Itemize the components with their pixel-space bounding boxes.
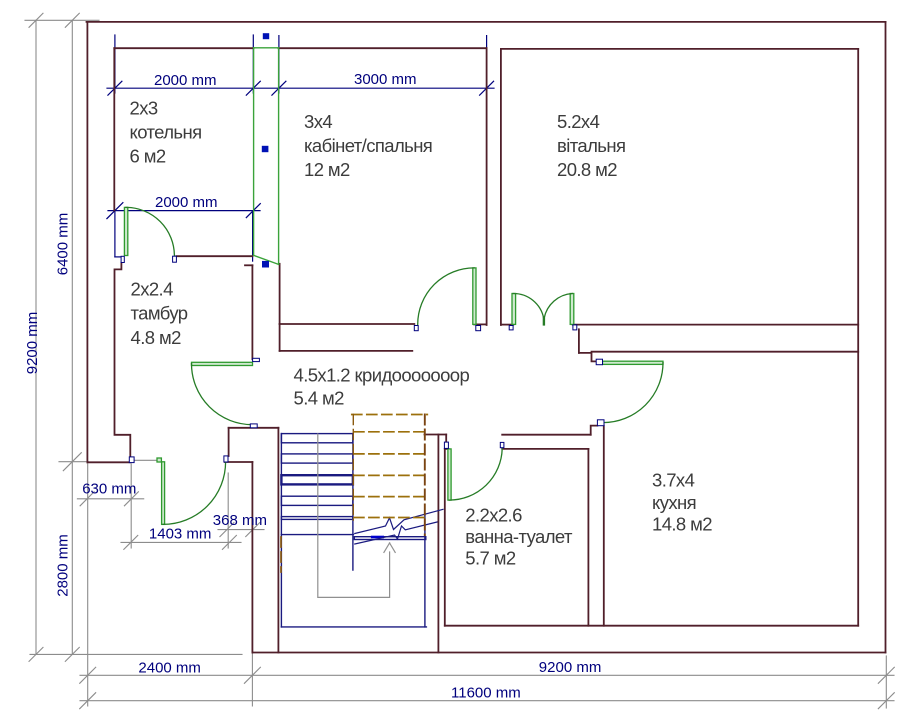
wall: corridor east cap	[578, 329, 580, 353]
stair bottom tread band	[354, 537, 426, 540]
wall: corridor bottom left	[229, 427, 279, 429]
wall: kabinet/vitalnya double west line	[486, 48, 488, 325]
stair tread 1	[281, 434, 353, 443]
jamb tambour-corridor top	[253, 358, 260, 361]
wall: vitalnya top inner	[501, 48, 858, 50]
door arc kotelnya	[126, 207, 174, 255]
dimension line 1403 mm	[121, 541, 241, 543]
stair direction arrow	[318, 434, 395, 597]
dimension line 630 mm	[77, 498, 143, 500]
svg-text:2x3: 2x3	[130, 98, 158, 119]
svg-text:12 м2: 12 м2	[304, 159, 350, 180]
blue square bottom	[262, 261, 269, 268]
door arc double left	[513, 293, 544, 318]
svg-text:3x4: 3x4	[304, 111, 332, 132]
jamb kitchen top	[596, 359, 602, 365]
wall: kotелnya top inner	[114, 47, 253, 49]
tick (87.7,675.3)	[80, 667, 96, 683]
wall: corridor bottom right of bath door	[502, 434, 591, 436]
shaft west line	[253, 48, 255, 256]
dashed lower-left bit	[280, 537, 282, 572]
svg-text:2400 mm: 2400 mm	[138, 659, 201, 676]
wall: rooms bottom inner	[445, 625, 858, 627]
svg-text:4.5x1.2 кридооооооор: 4.5x1.2 кридооооооор	[294, 365, 470, 386]
wall: outer right	[885, 22, 887, 653]
wall: outer bottom	[252, 652, 885, 654]
extension line x252.4 vertical	[251, 523, 253, 706]
jamb kitchen bottom	[597, 420, 604, 426]
wall: bathroom west inner	[444, 449, 446, 626]
wall: bathroom east inner	[587, 449, 589, 626]
tick (72.3,654.4)	[65, 647, 79, 661]
jamb kotelnya left	[121, 256, 124, 262]
wall: bathroom top left stub	[445, 448, 449, 450]
wall: tambour east	[251, 265, 253, 359]
svg-text:11600 mm: 11600 mm	[451, 685, 521, 702]
jamb tambour-corridor bottom	[250, 424, 257, 428]
tick (886.3,675.3)	[878, 667, 894, 683]
double door center stub	[543, 318, 545, 325]
stair outline west	[280, 434, 282, 627]
wall: kabinet west below shaft	[279, 264, 281, 324]
door leaf kotelnya	[124, 207, 127, 255]
door arc tambour-corridor	[192, 364, 253, 425]
wall: tambour west lower jog	[115, 263, 131, 457]
extension line x131 vertical	[130, 464, 132, 548]
wall: vitalnya bottom left stub	[501, 324, 513, 326]
svg-text:3.7x4: 3.7x4	[652, 470, 695, 491]
jamb porch left	[129, 457, 134, 463]
wall: vitalnya bottom right	[573, 324, 859, 326]
dashed tread d	[354, 496, 428, 498]
extension line top horizontal	[25, 19, 99, 21]
jamb double door right	[573, 325, 577, 330]
door hinge cap porch	[157, 458, 161, 462]
tick (114.9,210.6)	[107, 203, 123, 219]
tick (253.3,210.6)	[246, 204, 260, 218]
extension line x886 vertical	[885, 656, 887, 708]
svg-text:5.7 м2: 5.7 м2	[465, 548, 516, 569]
dashed tread c	[354, 474, 428, 476]
tick (87.7,700.7)	[80, 693, 96, 709]
wall: bathroom top inner	[502, 448, 588, 450]
jamb porch right	[224, 456, 228, 462]
svg-text:ванна-туалет: ванна-туалет	[465, 526, 573, 547]
dashed tread b	[354, 453, 428, 455]
door arc kabinet	[418, 268, 475, 325]
door arc kitchen	[603, 363, 663, 423]
jamb kabinet door left	[414, 326, 418, 331]
svg-text:14.8 м2: 14.8 м2	[652, 514, 712, 535]
svg-text:2000 mm: 2000 mm	[155, 194, 218, 211]
svg-text:6400 mm: 6400 mm	[55, 213, 72, 276]
dimension line 368 mm	[218, 529, 264, 531]
extension line left vertical 9200	[35, 20, 37, 654]
tick (36,654.4)	[29, 647, 43, 661]
wall: tambour-kotелnya divider	[176, 255, 252, 257]
stair tread 2	[281, 454, 353, 463]
svg-text:6 м2: 6 м2	[130, 146, 166, 167]
wall: corridor top band upper	[280, 323, 415, 325]
tick (72.3,20.3)	[65, 13, 79, 27]
shaft bottom slant	[254, 255, 279, 264]
navy opening line east wall	[252, 211, 254, 262]
wall: kabinet top inner	[279, 47, 487, 49]
wall: bathroom west outer	[437, 435, 439, 653]
tick (36,20.3)	[29, 13, 43, 27]
tick (72.3,461.7)	[63, 453, 81, 471]
svg-text:2x2.4: 2x2.4	[131, 279, 174, 300]
svg-text:5.4 м2: 5.4 м2	[294, 388, 345, 409]
dimension line 2400/9200 bottom	[80, 674, 894, 676]
wall: outer left	[86, 22, 88, 462]
door leaf double left	[512, 294, 516, 325]
tick (131.4,498.8)	[124, 492, 138, 506]
threshold line porch door	[134, 459, 159, 461]
wall: alcove right part	[225, 461, 253, 463]
svg-text:кабінет/спальня: кабінет/спальня	[304, 135, 432, 156]
svg-text:котельня: котельня	[130, 122, 202, 143]
dimension line 2000 mm second	[108, 210, 260, 212]
door arc porch	[163, 462, 226, 525]
stair stringer center	[352, 434, 354, 570]
jamb double door left	[509, 326, 513, 330]
dashed flight east edge	[424, 415, 426, 536]
ext line x253.3 top	[252, 35, 254, 93]
shaft top line	[254, 47, 279, 49]
door leaf tambour-corridor	[192, 362, 253, 365]
wall: kitchen west upper jog	[591, 426, 598, 435]
svg-text:тамбур: тамбур	[131, 303, 188, 324]
tick (486.6,88.2)	[480, 81, 494, 95]
ext line x486.6 top	[486, 36, 488, 90]
dashed flight west edge	[352, 415, 354, 521]
wall: kitchen top inner	[592, 351, 859, 353]
dashed flight top edge	[352, 414, 428, 416]
door leaf double right	[570, 294, 574, 325]
svg-text:5.2x4: 5.2x4	[557, 111, 600, 132]
tick (886.3,700.7)	[878, 693, 894, 709]
tick (130.8,542.4)	[124, 535, 138, 549]
stair tread 4	[281, 496, 353, 505]
dashed tread e	[354, 517, 424, 519]
tick (229.4,542.4)	[222, 535, 236, 549]
extension line x87.7 vertical	[87, 464, 89, 706]
stair tread bold segment	[372, 536, 383, 539]
door arc double right	[544, 294, 572, 319]
svg-text:368 mm: 368 mm	[213, 512, 267, 529]
tick (252.7,529.6)	[246, 523, 260, 537]
tick (226.9,529.6)	[220, 523, 234, 537]
extension line bottom horizontal y654	[30, 653, 242, 655]
wall: alcove jamb vertical	[228, 428, 230, 456]
tick (87.1,498.8)	[80, 492, 94, 506]
wall: corridor bottom near stairs	[425, 434, 447, 436]
extension line left vertical 6400/2800	[71, 20, 73, 654]
jamb bathroom right	[500, 442, 504, 447]
stair tread 3	[281, 475, 353, 484]
svg-text:9200 mm: 9200 mm	[539, 659, 602, 676]
door leaf kitchen	[603, 361, 664, 364]
dimension line 2000 mm top	[107, 87, 494, 89]
stair outline bottom	[281, 626, 426, 628]
tick (114.9,88.2)	[108, 81, 122, 95]
door leaf porch	[162, 462, 165, 525]
wall: kitchen top left jog	[579, 353, 596, 362]
svg-text:3000 mm: 3000 mm	[354, 71, 417, 88]
wall: outer top	[87, 21, 886, 23]
stair tread 5	[281, 517, 353, 520]
tick (278.9,88.2)	[272, 81, 286, 95]
shaft east line	[278, 48, 280, 265]
door arc bathroom	[449, 449, 502, 500]
blue square top	[263, 33, 269, 39]
stair break diagonal lower	[355, 522, 437, 544]
stair outline east	[424, 514, 426, 627]
tick (253.3,88.2)	[246, 81, 260, 95]
wall: kabinet/vitalnya double east line	[500, 49, 502, 325]
wall: kotелnya west inner	[113, 48, 115, 210]
wall: bath door left cap	[445, 435, 447, 443]
svg-text:20.8 м2: 20.8 м2	[557, 159, 617, 180]
svg-text:кухня: кухня	[652, 492, 696, 513]
wall: alcove left part	[87, 461, 130, 463]
door leaf bathroom	[448, 449, 451, 500]
navy opening step	[115, 256, 121, 258]
wall: corridor top band lower	[280, 350, 413, 352]
wall: kabinet door right stub	[474, 323, 487, 325]
extension line x228 vertical	[227, 473, 229, 548]
navy opening line west wall	[114, 211, 116, 257]
stair lower landing line	[281, 534, 353, 536]
wall: stairwell west	[277, 428, 279, 653]
wall: vitalnya east inner	[857, 49, 859, 626]
dimension line 11600 bottom	[80, 700, 894, 702]
jamb kabinet door right	[476, 326, 481, 331]
svg-text:вітальня: вітальня	[557, 135, 625, 156]
jamb bathroom left	[444, 442, 448, 448]
dashed tread a	[354, 431, 428, 433]
svg-text:2.2x2.6: 2.2x2.6	[465, 505, 522, 526]
wall: kitchen west inner	[603, 426, 605, 626]
ext line x114.9 top	[114, 35, 116, 93]
wall: porch west vertical	[251, 462, 253, 653]
svg-text:630 mm: 630 mm	[82, 481, 136, 498]
tick (252.4,675.3)	[244, 667, 260, 683]
svg-text:2800 mm: 2800 mm	[55, 534, 72, 597]
blue square middle	[262, 146, 269, 152]
svg-text:9200 mm: 9200 mm	[24, 312, 41, 375]
wall: tambour east jog	[245, 264, 252, 266]
jamb kotelnya right	[173, 256, 177, 262]
stair break diagonal upper	[355, 509, 443, 533]
extension line mid horizontal y462	[59, 461, 88, 463]
svg-text:2000 mm: 2000 mm	[154, 72, 217, 89]
wall: corridor top band west cap	[279, 324, 281, 351]
svg-text:4.8 м2: 4.8 м2	[131, 327, 182, 348]
ext line x278.9 top	[278, 36, 280, 93]
door leaf kabinet	[473, 268, 476, 325]
svg-text:1403 mm: 1403 mm	[149, 526, 212, 543]
